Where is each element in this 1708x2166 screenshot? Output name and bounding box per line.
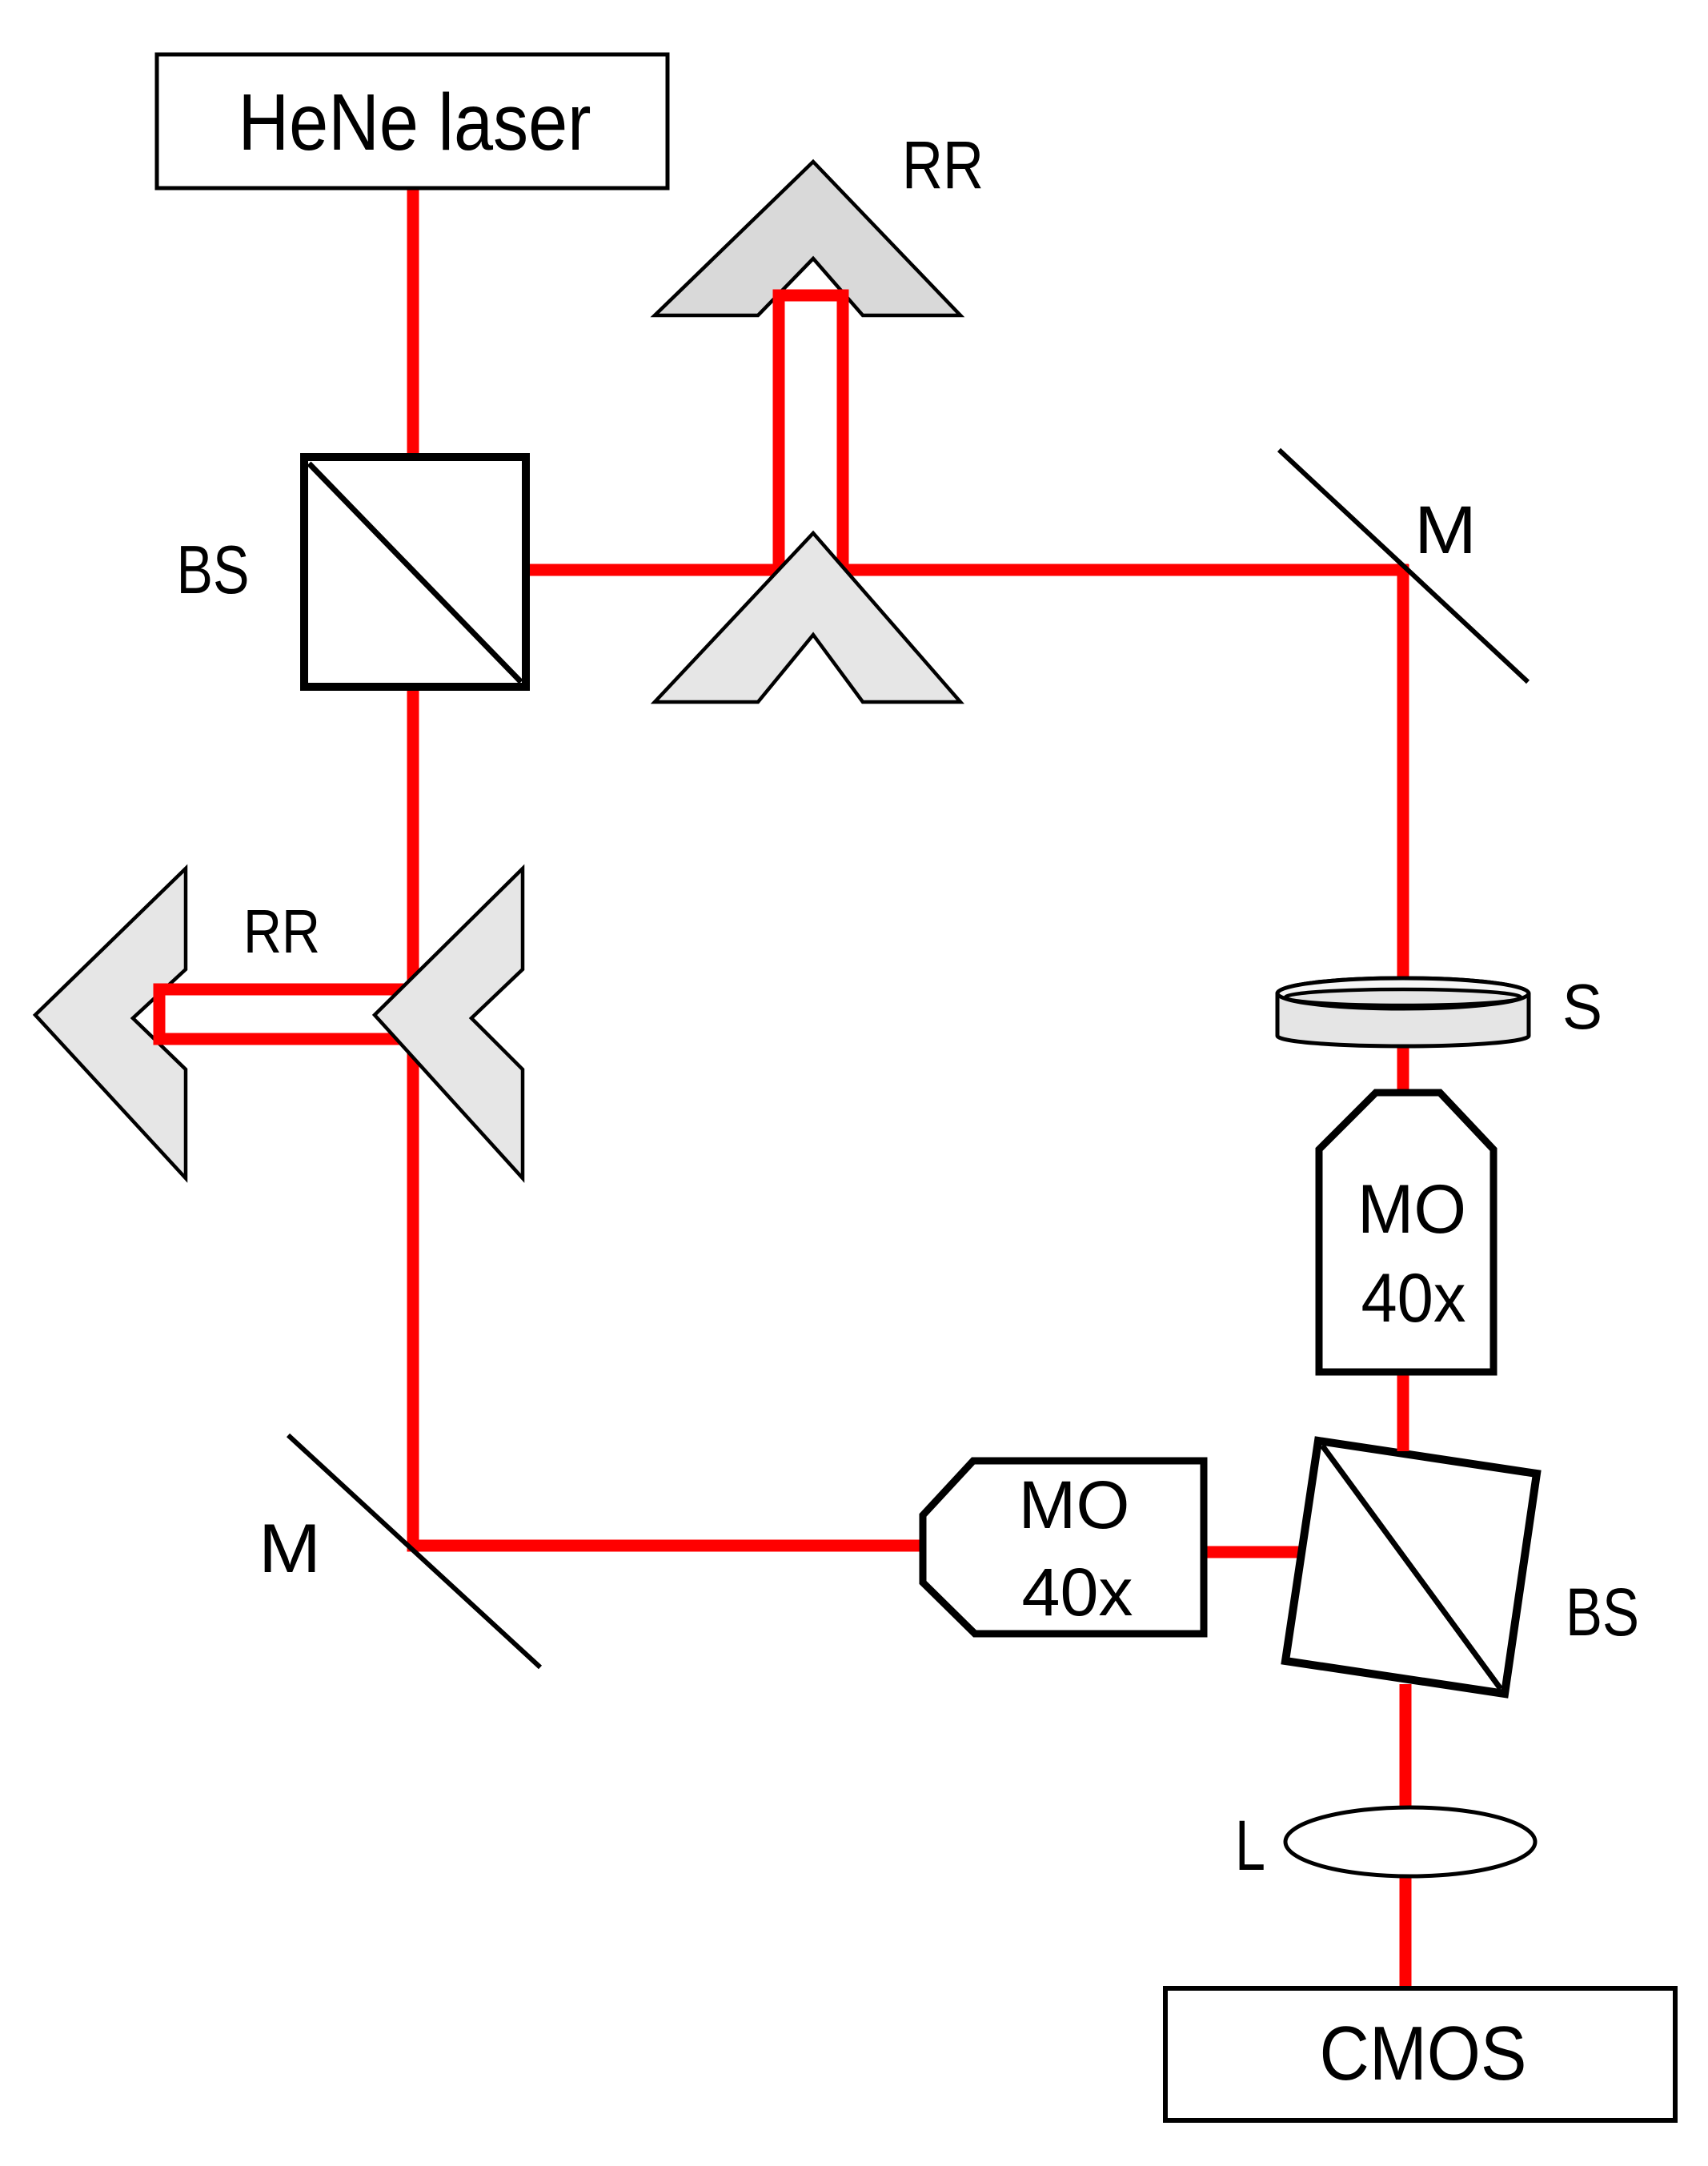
- beam splitter BS2 diagonal: [1322, 1446, 1501, 1689]
- mirror M2 (bottom left): [288, 1435, 540, 1667]
- wire: beam BS1 down to M2 then right to MO2 (under RR2): [413, 681, 927, 1546]
- wire: beam BS1 to M1 (horizontal, under RR1): [526, 564, 1409, 576]
- retroreflector RR2 left prism: [35, 868, 186, 1178]
- svg-text:HeNe laser: HeNe laser: [239, 78, 591, 167]
- beam splitter BS2 cube (tilted): [1285, 1441, 1537, 1694]
- retroreflector RR1 bottom prism: [655, 533, 960, 702]
- wire: beam MO2 to BS2: [1201, 1546, 1303, 1558]
- objective MO1 (vertical): [1319, 1093, 1493, 1372]
- svg-text:RR: RR: [243, 897, 320, 966]
- svg-text:S: S: [1562, 971, 1602, 1042]
- beam splitter BS1 cube: [304, 457, 526, 687]
- svg-text:BS: BS: [177, 532, 250, 608]
- svg-text:MO: MO: [1019, 1467, 1130, 1542]
- sample S dish inner rim: [1285, 989, 1521, 1005]
- objective MO2 (horizontal): [923, 1461, 1204, 1634]
- wire: beam MO1 into BS2 (over BS2 top edge): [1397, 1376, 1409, 1451]
- wire: beam loop in RR1 (over top prism, under bottom prism): [779, 295, 843, 575]
- svg-text:M: M: [259, 1510, 321, 1587]
- svg-text:CMOS: CMOS: [1320, 2011, 1527, 2096]
- retroreflector RR1 top prism: [655, 162, 960, 315]
- lens L: [1285, 1807, 1535, 1876]
- svg-text:MO: MO: [1357, 1171, 1466, 1248]
- beam splitter BS1 diagonal: [309, 463, 521, 682]
- wire: beam BS2 to lens L: [1400, 1684, 1412, 1817]
- sample S dish body: [1277, 978, 1529, 1046]
- retroreflector RR2 right prism: [375, 868, 523, 1178]
- svg-text:M: M: [1414, 492, 1477, 568]
- sample S dish top face: [1277, 978, 1529, 1009]
- svg-text:L: L: [1235, 1805, 1265, 1885]
- wire: beam M1 down through S to MO1: [1397, 564, 1409, 1376]
- wire: beam loop in RR2 (over left prism, under right prism): [159, 989, 417, 1039]
- svg-text:BS: BS: [1566, 1574, 1639, 1650]
- svg-text:40x: 40x: [1022, 1554, 1133, 1630]
- HeNe laser box: [157, 54, 668, 188]
- wire: beam laser to BS1: [407, 186, 419, 459]
- svg-text:RR: RR: [902, 127, 984, 203]
- wire: beam lens L to CMOS: [1400, 1873, 1412, 1995]
- svg-text:40x: 40x: [1361, 1260, 1466, 1337]
- CMOS camera box: [1165, 1988, 1675, 2120]
- mirror M1 (top right): [1279, 450, 1528, 682]
